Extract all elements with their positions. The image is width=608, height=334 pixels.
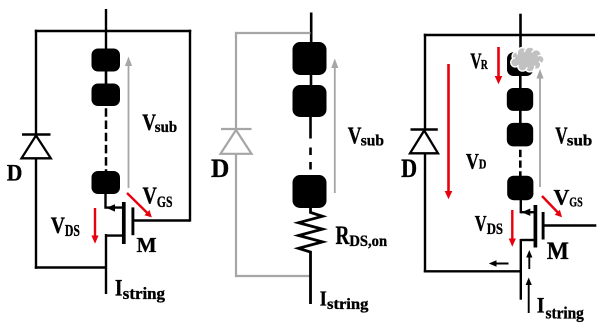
wire gray loop top [235,32,311,34]
wire source stub [106,234,123,236]
cell square 4 [507,176,533,201]
wire connector 2-3 [519,109,522,124]
arrow V_GS (red diagonal) [542,196,559,214]
svg-text:I: I [537,292,545,317]
arrow V_D (red down) [447,64,450,193]
wire string top [519,14,522,52]
svg-text:GS: GS [157,194,173,211]
svg-text:V: V [475,211,487,236]
wire bottom [424,270,522,272]
svg-text:R: R [336,221,350,250]
svg-text:M: M [137,233,157,257]
svg-text:D: D [211,153,229,183]
arrow V_GS (red diagonal) [127,193,148,214]
wire gate to frame [133,219,190,221]
cell square 3 [293,175,327,208]
wire left rail lower [35,158,37,268]
diode D2 triangle (gray) [221,130,252,154]
cell square 2 [92,84,121,107]
svg-text:GS: GS [569,196,583,211]
wire top horizontal [424,34,595,36]
cell square 1 (shaded cell) [507,52,533,76]
arrow I_string (black up, below wire) [528,283,530,313]
arrow V_sub (gray up) [539,75,541,187]
diode D1 cathode bar [22,133,51,135]
transistor M channel bar [534,205,538,248]
wire string top (black) [310,13,313,46]
svg-text:string: string [123,284,166,303]
arrow current bottom (black left) [492,263,509,265]
diode D2 cathode bar (gray) [221,128,252,130]
svg-text:D: D [7,160,23,186]
wire string top [105,9,107,50]
svg-text:V: V [51,213,65,239]
svg-text:DS: DS [487,221,503,238]
svg-text:M: M [547,238,569,265]
wire cell connector [310,73,313,87]
svg-text:string: string [327,296,368,313]
arrow V_R (red down) [497,47,500,78]
transistor M gate bar [131,207,134,235]
cloud (damaged cell) [511,47,544,72]
wire left rail upper [35,30,37,135]
wire dashed string [309,117,312,176]
wire gray left lower [235,154,237,277]
wire left rail upper [424,34,426,130]
wire cell connector [105,70,108,85]
transistor M gate bar [542,212,545,240]
arrow drain current (left) [522,209,531,216]
svg-text:DS,on: DS,on [349,233,387,250]
wire dashed string [519,150,522,176]
arrow drain current (left) [106,204,115,211]
wire drain down [104,193,106,209]
arrow V_sub (gray up) [334,65,336,193]
diode D1 triangle [22,136,51,159]
svg-text:string: string [546,303,585,322]
svg-text:D: D [479,157,487,172]
resistor R_DS,on [299,207,323,304]
wire bottom [35,266,106,268]
wire gray bottom [236,275,312,277]
cell square 3 [92,171,121,194]
wire drain down [520,198,522,213]
cell square 2 [293,85,327,117]
wire frame right [189,30,191,222]
svg-text:sub: sub [155,119,177,136]
svg-text:R: R [481,57,488,72]
svg-text:I: I [320,286,327,310]
arrow V_DS (red down) [94,208,96,238]
transistor M channel bar [122,202,126,244]
wire drain stub [106,206,123,208]
cell square 1 [293,42,327,75]
arrow current source (black up, above wire) [528,256,530,270]
svg-text:V: V [466,149,479,174]
cell square 1 [92,49,121,72]
wire connector 1-2 [519,74,522,90]
cell square 3 [507,123,533,146]
wire left rail lower [424,153,426,272]
svg-text:V: V [554,185,570,210]
svg-text:V: V [143,184,158,210]
wire source stub [521,239,534,241]
cell square 2 [507,88,533,111]
svg-text:DS: DS [65,221,80,240]
svg-text:I: I [115,275,123,301]
wire source down [105,234,107,294]
arrow V_DS (red down) [511,210,513,241]
wire drain stub [521,211,534,213]
svg-text:sub: sub [567,132,592,149]
wire frame top [35,30,191,32]
diode D3 triangle [410,131,438,154]
wire source down [520,239,522,300]
wire gray left upper [235,32,237,130]
wire dashed string [105,108,108,172]
svg-text:sub: sub [361,133,384,150]
wire gate right [544,224,596,226]
diode D3 cathode bar [411,128,438,130]
svg-text:D: D [401,153,417,183]
arrow V_sub (gray up) [128,63,130,188]
